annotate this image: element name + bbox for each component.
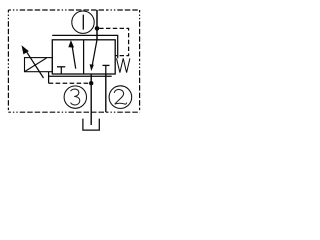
digit 2	[114, 89, 126, 104]
port 1 label circle	[72, 11, 94, 33]
wire port 2 vertical	[105, 74, 107, 112]
left position blocked port T	[57, 67, 65, 74]
valve body 2-position envelope	[52, 40, 115, 74]
digit 1	[82, 15, 84, 30]
enclosure phantom border	[8, 10, 139, 112]
left position flow arrow (2 to 1)	[68, 40, 75, 69]
wire pilot line dashed from port 1 to spring chamber	[99, 28, 128, 55]
wire port 3 vertical to tank	[90, 74, 92, 125]
port 2 label circle	[109, 86, 132, 109]
right position blocked port T	[103, 65, 110, 74]
valve position divider	[83, 40, 85, 74]
spring W	[117, 58, 130, 72]
tank symbol	[83, 119, 99, 131]
right position flow arrow (1 to 3)	[90, 40, 97, 71]
node junction dot drain	[89, 81, 93, 85]
proportional arrow	[22, 45, 44, 78]
node junction dot port 1	[95, 26, 100, 31]
port 3 label circle	[64, 86, 86, 108]
wire port 1 vertical	[96, 10, 98, 40]
solenoid winding diagonal	[25, 58, 47, 72]
solenoid box	[25, 58, 53, 72]
digit 3	[71, 89, 80, 105]
wire pilot line solid over valve to spring end	[52, 35, 118, 58]
wire solenoid drain dashed	[49, 72, 90, 84]
wire drain under valve to spring chamber	[49, 75, 112, 77]
